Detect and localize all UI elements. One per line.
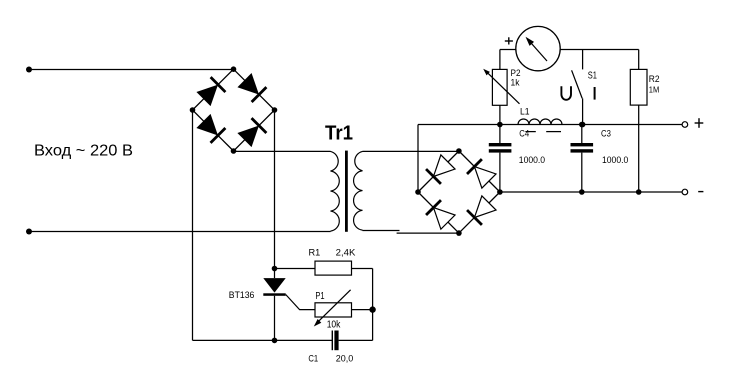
svg-text:10k: 10k [327, 320, 342, 331]
svg-text:20,0: 20,0 [336, 354, 354, 365]
svg-text:1000.0: 1000.0 [519, 155, 545, 166]
svg-text:R2: R2 [649, 74, 660, 84]
svg-text:C1: C1 [308, 353, 318, 364]
svg-text:1M: 1M [649, 85, 660, 95]
svg-text:P1: P1 [315, 291, 325, 302]
svg-text:P2: P2 [511, 68, 521, 78]
svg-text:Вход ~ 220 В: Вход ~ 220 В [34, 143, 133, 160]
svg-text:C4: C4 [519, 129, 529, 140]
svg-text:Tr1: Tr1 [325, 123, 353, 145]
svg-text:2,4K: 2,4K [336, 247, 356, 258]
svg-text:R1: R1 [309, 247, 321, 258]
svg-text:S1: S1 [588, 70, 598, 81]
svg-text:C3: C3 [601, 129, 611, 140]
svg-text:1k: 1k [511, 78, 520, 88]
svg-text:BT136: BT136 [229, 290, 255, 301]
svg-text:1000.0: 1000.0 [602, 155, 628, 166]
svg-text:L1: L1 [520, 106, 530, 117]
